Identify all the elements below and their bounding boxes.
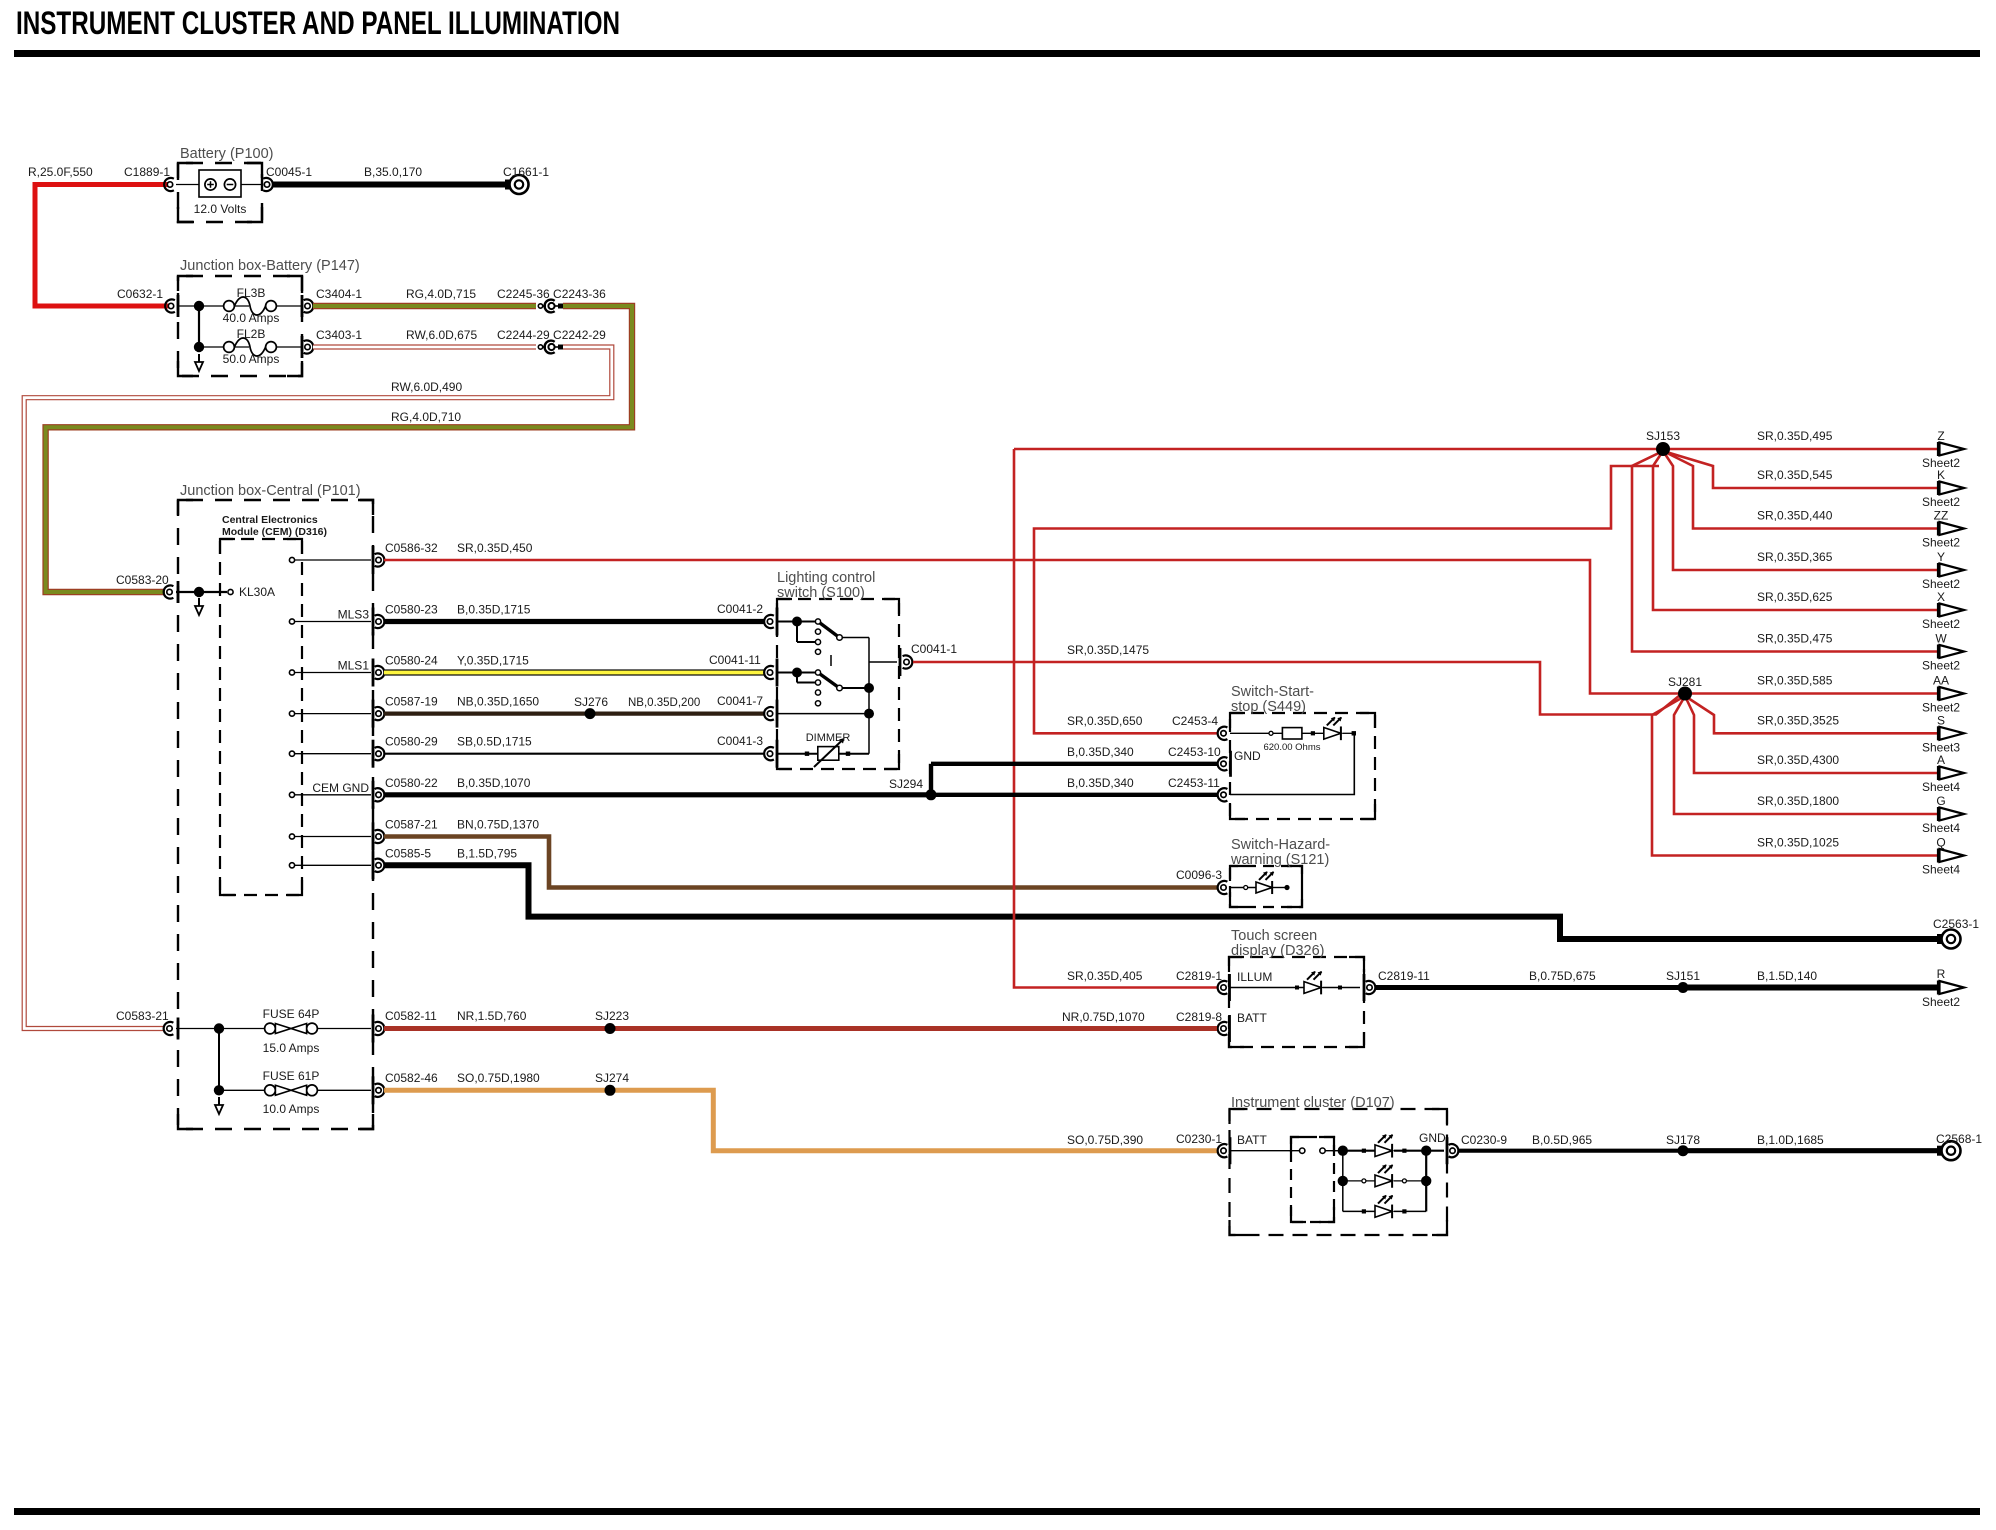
node SJ276 (585, 708, 596, 719)
junction box P147 (178, 276, 302, 376)
svg-text:RW,6.0D,490: RW,6.0D,490 (391, 380, 462, 394)
cluster box D107 (1230, 1109, 1448, 1235)
wire SR,0.35D,405 illum drop (1014, 449, 1217, 988)
connector C2819-8 (1218, 1022, 1228, 1035)
svg-text:SJ151: SJ151 (1666, 969, 1700, 983)
svg-text:Sheet4: Sheet4 (1922, 821, 1960, 835)
S100 sec1 wire (776, 621, 818, 623)
S100 bar C0041-3 (776, 740, 779, 768)
wire SR,0.35D,475 to W (1632, 451, 1938, 652)
wire B,0.35D,1715 MLS3 (384, 619, 764, 624)
svg-text:C0580-29: C0580-29 (385, 735, 438, 749)
CEM pin C0587-21 (289, 834, 294, 839)
svg-text:NB,0.35D,1650: NB,0.35D,1650 (457, 695, 539, 709)
svg-text:C2453-11: C2453-11 (1168, 776, 1220, 790)
S100 C0041-7 wire (776, 713, 866, 715)
svg-text:FUSE 61P: FUSE 61P (263, 1069, 320, 1083)
wire SR,0.35D,585 to AA (1685, 692, 1938, 695)
svg-text:INSTRUMENT CLUSTER AND PANEL I: INSTRUMENT CLUSTER AND PANEL ILLUMINATIO… (16, 5, 620, 41)
D107 node right (1421, 1146, 1431, 1156)
svg-text:C0230-1: C0230-1 (1176, 1132, 1222, 1146)
D107 node right2 (1421, 1176, 1431, 1186)
wire SR to SJ153 (1014, 448, 1663, 451)
connector C0583-20 (164, 585, 174, 598)
svg-text:B,0.35D,1715: B,0.35D,1715 (457, 603, 531, 617)
svg-text:C3404-1: C3404-1 (316, 287, 362, 301)
svg-text:C0587-21: C0587-21 (385, 818, 438, 832)
svg-text:KL30A: KL30A (239, 585, 275, 599)
svg-text:SJ294: SJ294 (889, 777, 923, 791)
svg-text:Junction box-Battery (P147): Junction box-Battery (P147) (180, 258, 360, 274)
S121 wire out (1273, 887, 1287, 889)
switch box S100 (777, 599, 899, 769)
wire KL30A (176, 591, 227, 593)
P147 right pin bar bottom (301, 336, 304, 358)
led D326 (1304, 982, 1321, 994)
wire P147 internal bottom (199, 346, 249, 348)
svg-text:12.0 Volts: 12.0 Volts (194, 202, 247, 216)
S100 sec2 blade (820, 674, 838, 687)
svg-text:Junction box-Central (P101): Junction box-Central (P101) (180, 483, 361, 499)
svg-text:RG,4.0D,710: RG,4.0D,710 (391, 410, 461, 424)
P147 right pin bar top (301, 295, 304, 317)
connector C0041-3 (764, 747, 774, 760)
svg-text:G: G (1936, 794, 1945, 808)
CEM pin C0580-22 (289, 792, 294, 797)
svg-text:SJ178: SJ178 (1666, 1133, 1700, 1147)
svg-text:C0632-1: C0632-1 (117, 287, 163, 301)
connector C0041-2 (764, 615, 774, 628)
connector C1889-1 (164, 178, 174, 191)
wire SO,0.75D,390 (610, 1090, 1217, 1150)
S100 bar C0041-1 (899, 648, 902, 676)
sheet arrow Q (1937, 849, 1939, 863)
svg-text:C0096-3: C0096-3 (1176, 868, 1222, 882)
connector C0096-3 (1218, 881, 1228, 894)
node SJ281 (1678, 687, 1692, 701)
svg-text:SJ223: SJ223 (595, 1009, 629, 1023)
wire FL2B to C3403-1 (276, 346, 301, 348)
svg-text:10.0 Amps: 10.0 Amps (263, 1102, 320, 1116)
connector C0580-24 (375, 666, 385, 679)
svg-text:S: S (1937, 713, 1945, 727)
svg-text:Module (CEM) (D316): Module (CEM) (D316) (222, 526, 327, 538)
svg-text:MLS3: MLS3 (338, 608, 370, 622)
led S449 (1324, 727, 1341, 739)
svg-text:stop (S449): stop (S449) (1231, 699, 1306, 715)
connector C2819-11 (1366, 981, 1376, 994)
connector C0041-1 (903, 655, 913, 668)
svg-text:Sheet2: Sheet2 (1922, 659, 1960, 673)
connector C2453-4 (1218, 727, 1228, 740)
wire SR,0.35D,1025 to Q (1652, 696, 1938, 856)
svg-text:SR,0.35D,4300: SR,0.35D,4300 (1757, 753, 1839, 767)
P101 bar C0580-23 (372, 608, 375, 636)
S100 sec1 out (842, 637, 869, 639)
connector C3403-1 (304, 340, 314, 353)
svg-text:BATT: BATT (1237, 1133, 1267, 1147)
connector C0585-5 (375, 859, 385, 872)
wire NB,0.35D,200 (590, 711, 764, 715)
svg-text:Battery (P100): Battery (P100) (180, 146, 274, 162)
svg-text:W: W (1935, 632, 1947, 646)
sheet arrow Y (1937, 563, 1939, 577)
ring terminal C2568-1 (1937, 1146, 1944, 1156)
wire B,1.5D,140 (1683, 985, 1938, 991)
sheet arrow G (1937, 807, 1939, 821)
svg-text:Switch-Hazard-: Switch-Hazard- (1231, 837, 1330, 853)
wire P147 internal vert (198, 306, 200, 347)
svg-text:Sheet2: Sheet2 (1922, 495, 1960, 509)
P101 left bar KL30A (177, 581, 180, 603)
connector C0230-9 (1449, 1144, 1459, 1157)
svg-text:SR,0.35D,625: SR,0.35D,625 (1757, 590, 1833, 604)
connector C0230-1 (1218, 1144, 1228, 1157)
S100 out wire (869, 661, 897, 663)
wire fuse vert (218, 1029, 220, 1091)
node P147 junction 2 (194, 342, 204, 352)
svg-text:SR,0.35D,365: SR,0.35D,365 (1757, 550, 1833, 564)
wire SR,0.35D,495 to Z (1663, 448, 1938, 451)
svg-text:SJ281: SJ281 (1668, 675, 1702, 689)
wire RG,4.0D,710 (46, 306, 632, 592)
wire B,0.35D,340 lower (931, 793, 1217, 797)
D326 bar BATT (1228, 1015, 1231, 1042)
svg-text:Sheet2: Sheet2 (1922, 995, 1960, 1009)
S100 sec1 branch (796, 622, 798, 643)
svg-text:FL3B: FL3B (237, 286, 266, 300)
ground arrow KL30A (198, 598, 200, 607)
svg-text:B,0.35D,340: B,0.35D,340 (1067, 745, 1134, 759)
connector C0586-32 (375, 553, 385, 566)
svg-text:Touch screen: Touch screen (1231, 928, 1317, 944)
sheet arrow R (1937, 981, 1939, 995)
svg-text:SR,0.35D,495: SR,0.35D,495 (1757, 429, 1833, 443)
svg-text:C2568-1: C2568-1 (1936, 1132, 1982, 1146)
connector C2453-10 (1218, 757, 1228, 770)
P101 bar C0580-22 (372, 781, 375, 809)
svg-text:SO,0.75D,390: SO,0.75D,390 (1067, 1133, 1143, 1147)
fuse FUSE 61P (265, 1085, 276, 1096)
svg-text:620.00 Ohms: 620.00 Ohms (1263, 742, 1320, 753)
sheet arrow K (1937, 481, 1939, 495)
svg-text:Z: Z (1937, 429, 1944, 443)
svg-text:C0230-9: C0230-9 (1461, 1133, 1507, 1147)
svg-text:BATT: BATT (1237, 1011, 1267, 1025)
P147 left pin bar (177, 295, 180, 317)
CEM pin C0585-5 (289, 863, 294, 868)
svg-text:C0580-24: C0580-24 (385, 654, 438, 668)
P101 bar C0586-32 (372, 546, 375, 574)
rheostat DIMMER (818, 747, 839, 761)
wire fuse61 internal (219, 1089, 264, 1091)
svg-text:C2244-29 C2242-29: C2244-29 C2242-29 (497, 328, 606, 342)
S100 dimmer squares (805, 752, 809, 756)
svg-text:B,1.5D,140: B,1.5D,140 (1757, 969, 1817, 983)
S100 sec2 wire (776, 672, 818, 674)
svg-text:C2819-11: C2819-11 (1378, 969, 1430, 983)
S100 sec1 node (792, 617, 802, 627)
D107 bar GND (1446, 1137, 1449, 1164)
S100 dimmer wire (776, 753, 869, 755)
svg-text:CEM GND: CEM GND (312, 781, 369, 795)
connector C0587-21 (375, 830, 385, 843)
node SJ223 (605, 1023, 616, 1034)
wire B,1.0D,1685 (1683, 1148, 1941, 1153)
S100 sec2 out (842, 687, 866, 689)
connector C2819-1 (1218, 981, 1228, 994)
P101 bar C0580-29 (372, 740, 375, 768)
S100 sec2 out node (864, 683, 874, 693)
fuse FUSE 64P (265, 1023, 276, 1034)
connector C2453-11 (1218, 788, 1228, 801)
wire FL3B to C3404-1 (276, 305, 301, 307)
D107 batt wire (1230, 1150, 1299, 1152)
wire B,1.5D,795 (384, 865, 1941, 939)
D107 gnd wire (1426, 1150, 1444, 1152)
svg-text:Sheet4: Sheet4 (1922, 780, 1960, 794)
svg-text:C0580-23: C0580-23 (385, 603, 438, 617)
node SJ294 (926, 789, 937, 800)
S100 separator (830, 655, 832, 666)
svg-text:C0585-5: C0585-5 (385, 846, 431, 860)
wire SR,0.35D,545 to K (1663, 451, 1938, 488)
svg-text:ZZ: ZZ (1934, 509, 1949, 523)
S449 wire r-led (1302, 732, 1324, 734)
svg-text:Central Electronics: Central Electronics (222, 514, 318, 526)
svg-text:B,0.35D,340: B,0.35D,340 (1067, 776, 1134, 790)
battery B1 P100 (199, 170, 241, 197)
svg-text:Sheet4: Sheet4 (1922, 863, 1960, 877)
wire B,35.0,170 (273, 182, 506, 188)
CEM pin C0580-29 (289, 751, 294, 756)
wire SR,0.35D,650 branch (1034, 466, 1659, 733)
wire SR,0.35D,440 to ZZ (1663, 451, 1938, 529)
CEM pin C0587-19 (289, 711, 294, 716)
svg-text:NR,1.5D,760: NR,1.5D,760 (457, 1009, 527, 1023)
wire RG,4.0D,715 (313, 303, 536, 309)
svg-text:FUSE 64P: FUSE 64P (263, 1007, 320, 1021)
svg-text:C0041-2: C0041-2 (717, 602, 763, 616)
D107 inner connector box (1291, 1137, 1334, 1222)
resistor 620 Ohms (1281, 0, 1283, 2)
svg-text:C2819-1: C2819-1 (1176, 969, 1222, 983)
CEM pin C0580-23 (289, 619, 294, 624)
sheet arrow X (1937, 603, 1939, 617)
svg-text:C1889-1: C1889-1 (124, 165, 170, 179)
svg-text:C0041-3: C0041-3 (717, 734, 763, 748)
S100 internal vertical (868, 638, 870, 754)
connector C0580-22 (375, 788, 385, 801)
P101 bar C0587-21 (372, 823, 375, 851)
P101 bar C0582-11 (372, 1015, 375, 1043)
svg-text:SR,0.35D,1475: SR,0.35D,1475 (1067, 643, 1149, 657)
sheet arrow AA (1937, 687, 1939, 701)
node KL30A junction (194, 587, 204, 597)
P101 left bar fuse (177, 1018, 180, 1040)
wire RW,6.0D,675 (313, 344, 536, 349)
svg-text:R: R (1937, 967, 1946, 981)
connector C0632-1 (165, 299, 175, 312)
svg-text:RW,6.0D,675: RW,6.0D,675 (406, 328, 477, 342)
wire SR,0.35D,1800 to G (1674, 696, 1938, 814)
svg-text:B,1.0D,1685: B,1.0D,1685 (1757, 1133, 1824, 1147)
S449 led wire (1230, 732, 1282, 734)
svg-text:SR,0.35D,650: SR,0.35D,650 (1067, 714, 1143, 728)
wire fuse61 out (317, 1089, 371, 1091)
CEM pin C0586-32 (289, 557, 294, 562)
inline connector C2245-36 C2243-36 (538, 304, 542, 308)
D326 bar ILLUM (1228, 974, 1231, 1001)
wire SR,0.35D,4300 to A (1685, 696, 1938, 773)
svg-text:B,0.5D,965: B,0.5D,965 (1532, 1133, 1592, 1147)
node SJ178 (1678, 1145, 1689, 1156)
wire fuse64 internal (176, 1028, 264, 1030)
P101 bar C0587-19 (372, 700, 375, 728)
node P147 junction (194, 301, 204, 311)
svg-text:C0041-7: C0041-7 (717, 694, 763, 708)
S449 return wire (1343, 732, 1355, 734)
wire BN,0.75D,1370 (384, 837, 1217, 888)
sheet arrow Z (1937, 442, 1939, 456)
sheet arrow S (1937, 726, 1939, 740)
D107 left vertical (1342, 1151, 1344, 1212)
junction box P101 (178, 500, 373, 1129)
svg-text:SR,0.35D,475: SR,0.35D,475 (1757, 632, 1833, 646)
svg-text:Y,0.35D,1715: Y,0.35D,1715 (457, 654, 529, 668)
svg-text:switch (S100): switch (S100) (777, 585, 865, 601)
svg-text:SR,0.35D,1800: SR,0.35D,1800 (1757, 794, 1839, 808)
CEM pin C0580-24 (289, 670, 294, 675)
svg-text:B,35.0,170: B,35.0,170 (364, 165, 422, 179)
node fuse junction 2 (214, 1085, 224, 1095)
svg-text:Lighting control: Lighting control (777, 570, 875, 586)
svg-text:C3403-1: C3403-1 (316, 328, 362, 342)
svg-text:C1661-1: C1661-1 (503, 165, 549, 179)
svg-text:MLS1: MLS1 (338, 659, 370, 673)
wire R,25.0F,550 (35, 185, 169, 307)
D107 led row1 (1343, 1150, 1375, 1152)
S100 sec2 node (792, 668, 802, 678)
svg-text:C0583-20: C0583-20 (116, 573, 169, 587)
D326 bar C2819-11 (1363, 974, 1366, 1001)
svg-text:GND: GND (1419, 1131, 1446, 1145)
connector C0580-23 (375, 615, 385, 628)
svg-text:Switch-Start-: Switch-Start- (1231, 684, 1314, 700)
svg-text:B,0.35D,1070: B,0.35D,1070 (457, 776, 531, 790)
wire SR,0.35D,1475 (913, 662, 1680, 715)
svg-text:ILLUM: ILLUM (1237, 970, 1272, 984)
connector C0041-11 (764, 666, 774, 679)
D326 led out (1323, 987, 1361, 989)
svg-text:B,0.75D,675: B,0.75D,675 (1529, 969, 1596, 983)
P101 bar C0580-24 (372, 659, 375, 687)
wire NB,0.35D,1650 (384, 711, 590, 715)
wire SB,0.5D,1715 (384, 753, 764, 755)
S100 sec1 contacts (815, 619, 820, 624)
bottom rule (14, 1508, 1980, 1515)
wire fuse64 out (317, 1028, 371, 1030)
svg-text:SJ274: SJ274 (595, 1071, 629, 1085)
ground arrow P147 (198, 354, 200, 363)
D107 node left (1338, 1146, 1348, 1156)
wire batt internal left (176, 184, 199, 186)
svg-text:Sheet2: Sheet2 (1922, 617, 1960, 631)
D107 node left2 (1338, 1176, 1348, 1186)
fuse FL3B (224, 301, 235, 312)
svg-text:C2453-4: C2453-4 (1172, 714, 1218, 728)
connector C3404-1 (304, 299, 314, 312)
battery box P100 (178, 163, 262, 222)
display box D326 (1229, 957, 1364, 1047)
svg-text:SR,0.35D,440: SR,0.35D,440 (1757, 509, 1833, 523)
svg-text:C0583-21: C0583-21 (116, 1009, 169, 1023)
wire SR,0.35D,365 to Y (1663, 451, 1938, 570)
svg-text:Sheet2: Sheet2 (1922, 577, 1960, 591)
svg-text:FL2B: FL2B (237, 327, 266, 341)
connector C0582-11 (375, 1022, 385, 1035)
switch box S121 (1230, 866, 1302, 907)
svg-text:C0041-11: C0041-11 (709, 653, 761, 667)
svg-text:SJ276: SJ276 (574, 695, 608, 709)
svg-text:K: K (1937, 468, 1945, 482)
svg-text:warning (S121): warning (S121) (1230, 852, 1329, 868)
ground arrow fuses (218, 1097, 220, 1106)
svg-text:C0587-19: C0587-19 (385, 695, 438, 709)
S100 bar C0041-2 (776, 608, 779, 636)
svg-text:NR,0.75D,1070: NR,0.75D,1070 (1062, 1010, 1145, 1024)
ring terminal C2563-1 (1937, 934, 1944, 944)
connector C0041-7 (764, 707, 774, 720)
svg-text:C0041-1: C0041-1 (911, 642, 957, 656)
sheet arrow A (1937, 766, 1939, 780)
wire Y,0.35D,1715 MLS1 (384, 669, 764, 675)
svg-text:Instrument cluster (D107): Instrument cluster (D107) (1231, 1095, 1395, 1111)
svg-text:Sheet2: Sheet2 (1922, 536, 1960, 550)
S100 sec1 blade (820, 623, 838, 637)
wire SO,0.75D,1980 (384, 1088, 610, 1093)
svg-text:Y: Y (1937, 550, 1945, 564)
svg-text:A: A (1937, 753, 1945, 767)
svg-text:R,25.0F,550: R,25.0F,550 (28, 165, 93, 179)
svg-text:50.0 Amps: 50.0 Amps (223, 352, 280, 366)
node fuse junction (214, 1023, 224, 1033)
CEM box D316 (220, 539, 302, 895)
inline connector C2244-29 C2242-29 (538, 345, 542, 349)
D107 led row2 (1343, 1180, 1375, 1182)
D326 led wire (1230, 987, 1304, 989)
node SJ274 (605, 1085, 616, 1096)
wire batt internal right (241, 184, 261, 186)
P101 bar C0582-46 (372, 1076, 375, 1104)
node SJ151 (1678, 982, 1689, 993)
connector C0587-19 (375, 707, 385, 720)
S100 C0041-7 node (864, 709, 874, 719)
svg-text:SJ153: SJ153 (1646, 429, 1680, 443)
sheet arrow W (1937, 645, 1939, 659)
svg-text:Q: Q (1936, 836, 1945, 850)
svg-text:SR,0.35D,3525: SR,0.35D,3525 (1757, 713, 1839, 727)
connector C0045-1 (263, 178, 273, 191)
wire NR,0.75D,1070 (610, 1026, 1217, 1031)
svg-text:SR,0.35D,450: SR,0.35D,450 (457, 541, 533, 555)
svg-text:C0580-22: C0580-22 (385, 776, 438, 790)
top rule (14, 50, 1980, 57)
svg-text:RG,4.0D,715: RG,4.0D,715 (406, 287, 476, 301)
svg-text:SR,0.35D,545: SR,0.35D,545 (1757, 468, 1833, 482)
D107 led row3 (1343, 1210, 1375, 1212)
wire NR,1.5D,760 (384, 1026, 610, 1031)
